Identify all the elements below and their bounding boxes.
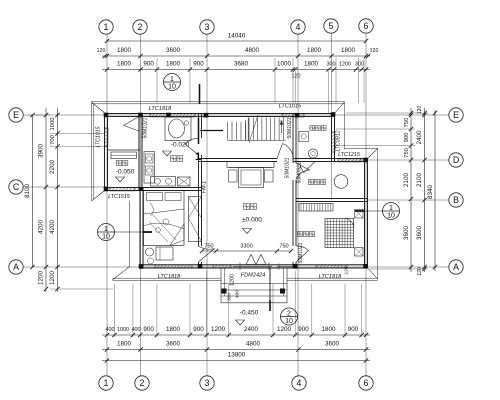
column grid4-A [293, 264, 298, 269]
svg-text:2: 2 [140, 378, 145, 388]
eave line bottom left part [113, 277, 222, 279]
dimension bottom row openings [102, 334, 370, 336]
wall hall right vertical [292, 114, 294, 164]
svg-text:3600: 3600 [166, 341, 181, 348]
svg-text:400: 400 [235, 290, 241, 298]
kitchen sink unit [165, 117, 191, 141]
svg-text:FDM2424: FDM2424 [241, 273, 266, 279]
wall exterior right [364, 159, 366, 269]
svg-text:B: B [453, 195, 459, 205]
column grid6-D [363, 158, 368, 163]
svg-text:50M1021: 50M1021 [287, 117, 293, 138]
door elder room from hall [296, 246, 309, 262]
detail bubble 1/10 top [164, 74, 181, 91]
bathroom toilet [299, 132, 309, 142]
detail bubble 2/10 at steps [281, 308, 298, 325]
grid line 3 vertical [206, 34, 208, 376]
bathroom sink circle [308, 149, 317, 158]
svg-text:LTC1515: LTC1515 [108, 194, 131, 200]
eave line bottom right part [287, 277, 378, 279]
svg-text:6: 6 [364, 378, 369, 388]
svg-text:900: 900 [143, 61, 154, 68]
window LTC1015 stairhall top [282, 114, 304, 117]
svg-text:2: 2 [138, 22, 143, 32]
terrace edge line left lower [129, 201, 131, 267]
window hall bottom left [213, 265, 231, 268]
column grid5-E [331, 112, 336, 117]
svg-text:750: 750 [404, 118, 410, 128]
svg-text:3: 3 [205, 22, 210, 32]
dimension bottom row axis [102, 349, 370, 351]
svg-text:300: 300 [327, 62, 336, 68]
wall exterior bottom [140, 264, 368, 266]
stair treads left flight [227, 122, 229, 141]
grid line 6 vertical [365, 34, 367, 376]
column step right [280, 289, 285, 294]
hall stool right [265, 170, 274, 182]
window LTC0912 bathroom right wall [332, 132, 335, 152]
column step left [222, 289, 227, 294]
wall washroom-dining divider [108, 149, 141, 151]
kitchen stove [151, 177, 176, 187]
svg-text:1800: 1800 [307, 47, 322, 54]
svg-text:4: 4 [296, 22, 301, 32]
detail bubble 1/10 left with leader [98, 224, 115, 241]
grid bubble 4 bottom [292, 376, 306, 390]
eave hip top-right [334, 103, 345, 115]
svg-text:LTC1015: LTC1015 [96, 126, 102, 147]
svg-text:D: D [453, 155, 459, 165]
dimension left axis row [45, 108, 47, 292]
svg-text:3600: 3600 [403, 226, 410, 241]
svg-text:400: 400 [106, 327, 115, 333]
stair rail center [245, 120, 247, 141]
eave line step right [345, 148, 379, 150]
svg-text:4: 4 [297, 378, 302, 388]
svg-text:E: E [453, 110, 459, 120]
svg-text:750: 750 [279, 244, 288, 250]
svg-text:4800: 4800 [246, 341, 261, 348]
dining level triangle [116, 177, 125, 182]
eave hip bottom-left [113, 267, 130, 281]
svg-text:3900: 3900 [38, 144, 45, 159]
grid line 5 vertical [331, 33, 333, 200]
elder room bed plaid [325, 219, 354, 248]
dimension bottom overall 13800 [102, 360, 370, 362]
svg-text:-0.050: -0.050 [116, 169, 135, 176]
svg-text:1000: 1000 [50, 118, 56, 131]
dimension right openings row [410, 108, 412, 272]
svg-text:1800: 1800 [166, 61, 181, 68]
svg-text:10: 10 [102, 234, 110, 241]
svg-text:6: 6 [364, 21, 369, 31]
wall stairhall bottom / hall top [199, 158, 278, 160]
grid line C horizontal [24, 186, 108, 188]
svg-text:750: 750 [204, 244, 213, 250]
svg-text:900: 900 [193, 61, 204, 68]
steps level triangle [236, 320, 245, 325]
window LTC1215 firewood room top [338, 159, 361, 162]
hall label 堂屋 [244, 204, 250, 210]
left dimension extension lines [50, 133, 104, 135]
svg-text:1: 1 [104, 226, 108, 233]
grid bubble A right [449, 260, 463, 274]
svg-text:1800: 1800 [117, 61, 132, 68]
svg-text:2400: 2400 [244, 326, 259, 333]
svg-text:1200: 1200 [211, 326, 226, 333]
svg-text:50M1021: 50M1021 [298, 242, 304, 263]
kitchen level triangle [163, 151, 172, 156]
kitchen label [170, 156, 176, 162]
svg-text:LTC0912: LTC0912 [336, 130, 342, 151]
svg-text:LTC1818: LTC1818 [158, 274, 181, 280]
svg-text:4200: 4200 [38, 220, 45, 235]
svg-text:5: 5 [329, 21, 334, 31]
column grid2-E [138, 113, 143, 118]
elder room cabinet hatched [299, 204, 333, 212]
svg-text:1800: 1800 [304, 61, 319, 68]
svg-text:1800: 1800 [117, 47, 132, 54]
svg-text:-0.020: -0.020 [171, 142, 190, 149]
column grid1-E [104, 113, 109, 118]
elder room bedside table bottom with X [355, 248, 364, 257]
svg-text:700: 700 [50, 135, 56, 145]
svg-text:1: 1 [170, 76, 174, 83]
grid line B horizontal [368, 199, 449, 201]
section 1 flag in kitchen [198, 118, 200, 145]
dimension top overall 14040 [107, 40, 366, 42]
svg-text:-0.450: -0.450 [240, 310, 259, 317]
window LTC1818 elder room bottom [316, 265, 347, 268]
svg-text:1: 1 [104, 22, 109, 32]
eave hip left-mid [92, 190, 106, 201]
grid line 2 vertical [140, 34, 142, 376]
column grid3-A [198, 264, 203, 269]
eave hip right-mid [367, 149, 378, 160]
entry steps sides [220, 268, 222, 303]
svg-text:900: 900 [193, 326, 204, 333]
svg-text:LTC1818: LTC1818 [149, 106, 172, 112]
svg-text:900: 900 [143, 326, 154, 333]
svg-text:300: 300 [355, 62, 364, 68]
stair treads right flight [248, 118, 250, 141]
window hall bottom right 3-line [277, 265, 298, 267]
detail bubble 1/10 right with leader [383, 203, 400, 220]
svg-text:50M1021: 50M1021 [285, 157, 291, 178]
column kitchen top mid [166, 113, 171, 118]
bedroom dresser [156, 247, 173, 260]
svg-text:1000: 1000 [277, 61, 292, 68]
svg-text:FM-1: FM-1 [202, 181, 208, 193]
svg-text:120: 120 [417, 267, 423, 276]
column grid1-C [104, 187, 109, 192]
svg-text:50M1021: 50M1021 [143, 117, 149, 138]
dining label 餐台 [116, 160, 121, 165]
hall level triangle [243, 229, 252, 234]
svg-text:900: 900 [404, 133, 410, 143]
svg-text:8340: 8340 [427, 185, 434, 200]
section 1 cut mark upper [199, 84, 201, 104]
window LTC1818 bedroom bottom [155, 265, 192, 268]
svg-text:1800: 1800 [321, 326, 336, 333]
svg-text:10: 10 [387, 213, 395, 220]
firewood room label [308, 179, 313, 184]
grid bubble 6 top [359, 19, 373, 33]
svg-text:A: A [13, 262, 19, 272]
column bedroom top-left [139, 187, 143, 191]
svg-text:3300: 3300 [240, 244, 252, 250]
entry steps treads [221, 283, 287, 285]
stair bottom edge [228, 140, 286, 142]
door bedroom FM-1 [199, 246, 215, 262]
grid bubble 2 top [133, 20, 147, 34]
svg-text:4200: 4200 [49, 220, 56, 235]
svg-text:120: 120 [370, 48, 379, 54]
svg-text:8100: 8100 [24, 184, 31, 199]
dining counter 餐台 [111, 152, 137, 159]
section 2 cut line at steps [269, 268, 271, 311]
grid bubble B right [449, 193, 463, 207]
stair break diagonal [249, 115, 258, 143]
grid bubble 5 top [324, 19, 338, 33]
svg-text:1200: 1200 [38, 271, 45, 286]
eave line top [92, 101, 345, 103]
bedroom wardrobe [189, 197, 202, 242]
svg-text:10: 10 [285, 318, 293, 325]
svg-text:3: 3 [205, 378, 210, 388]
svg-text:1200: 1200 [277, 326, 292, 333]
grid bubble 1 top [99, 20, 113, 34]
eave line right upper wing [344, 102, 346, 150]
svg-text:LTC1015: LTC1015 [279, 104, 302, 110]
svg-text:2: 2 [287, 310, 291, 317]
svg-text:1: 1 [195, 151, 201, 163]
door bathroom from firewood room [300, 162, 315, 173]
dimension top row axis distances [102, 55, 370, 57]
window LTC1818 kitchen top [150, 114, 195, 117]
svg-text:2100: 2100 [403, 173, 410, 188]
grid line D horizontal [340, 159, 449, 161]
window LTC1515 dining bottom [110, 188, 135, 191]
grid bubble 2 bottom [135, 376, 149, 390]
grid line E horizontal [24, 114, 449, 116]
svg-text:300: 300 [227, 293, 233, 301]
elder room bed pillow quarter [345, 219, 354, 228]
dimension right overall 8340 [434, 110, 436, 271]
svg-text:3600: 3600 [416, 226, 423, 241]
bedroom bed duvet fold [144, 209, 185, 214]
svg-text:3600: 3600 [325, 341, 340, 348]
grid bubble E left [9, 108, 23, 122]
svg-text:1200: 1200 [49, 271, 56, 286]
hall interior dimension 750 3300 750 [202, 250, 291, 252]
wall kitchen-stairhall divider [198, 114, 200, 139]
svg-text:3680: 3680 [234, 61, 249, 68]
window LTC0615 washroom left wall [105, 128, 108, 147]
wall elder-room top [296, 198, 368, 200]
hall stool left [229, 170, 238, 182]
svg-text:2200: 2200 [49, 160, 56, 175]
grid bubble D right [449, 153, 463, 167]
wall bathroom right vertical [331, 114, 333, 162]
grid bubble 3 bottom [200, 376, 214, 390]
svg-text:120: 120 [97, 48, 106, 54]
bottom dimension extension lines [113, 284, 115, 337]
hall long altar table [227, 162, 274, 168]
wall exterior left [104, 114, 106, 191]
wall washroom right vertical [138, 114, 140, 191]
grid bubble 3 top [200, 20, 214, 34]
svg-text:1200: 1200 [339, 62, 351, 68]
svg-text:750: 750 [404, 148, 410, 158]
right dimension extension lines [336, 128, 415, 130]
grid bubble A left [9, 260, 23, 274]
svg-text:50M0921: 50M0921 [297, 162, 303, 183]
svg-text:1200: 1200 [230, 274, 236, 286]
wall exterior top [105, 113, 335, 115]
bedroom bed [144, 191, 185, 246]
hall square table [239, 168, 264, 188]
svg-text:14040: 14040 [228, 33, 246, 40]
door firewood room from hall [296, 163, 310, 179]
grid bubble 4 top [291, 20, 305, 34]
svg-text:A: A [453, 262, 459, 272]
grid bubble 6 bottom [359, 376, 373, 390]
grid line 4 vertical [297, 34, 299, 376]
door kitchen from stairhall [185, 138, 199, 155]
svg-text:1800: 1800 [341, 47, 356, 54]
svg-text:1800: 1800 [117, 341, 132, 348]
bedroom stool circles [146, 248, 154, 256]
svg-text:900: 900 [348, 326, 359, 333]
dimension right axis row [424, 108, 426, 272]
svg-text:13800: 13800 [228, 352, 246, 359]
grid bubble C left [9, 180, 23, 194]
grid line 1 vertical [106, 34, 108, 376]
svg-text:LTC1818: LTC1818 [319, 274, 342, 280]
svg-text:C: C [13, 182, 20, 192]
entry door threshold [233, 265, 272, 267]
column grid3-E [204, 113, 209, 118]
eave hip top-left [92, 103, 107, 115]
bedroom bed pillows [147, 193, 163, 201]
kitchen counter left [144, 152, 155, 184]
svg-text:10: 10 [168, 84, 176, 91]
column grid6-A [363, 264, 368, 269]
svg-text:LTC1215: LTC1215 [338, 152, 361, 158]
svg-text:±0.000: ±0.000 [242, 217, 262, 224]
svg-text:1800: 1800 [166, 326, 181, 333]
eave line left [91, 102, 93, 202]
column grid4-E [295, 113, 300, 118]
svg-text:1: 1 [104, 378, 109, 388]
wall dining bottom with bedroom top [105, 187, 202, 189]
svg-text:E: E [13, 110, 19, 120]
svg-text:1: 1 [389, 205, 393, 212]
wall bedroom left [139, 188, 141, 269]
column grid2-A [139, 264, 144, 269]
svg-text:2400: 2400 [416, 130, 423, 145]
entry double door FDM2424 leaf left [246, 255, 256, 265]
grid bubble 1 bottom [99, 376, 113, 390]
svg-text:3600: 3600 [166, 47, 181, 54]
svg-text:1000: 1000 [117, 327, 129, 333]
firewood room stove circle [334, 175, 348, 189]
entry double door FDM2424 leaf right [256, 255, 266, 265]
door stairhall to hall [277, 144, 293, 159]
eave hip bottom-right [367, 267, 378, 280]
stair up arrow [281, 121, 283, 133]
elder room bedside table top with X [355, 210, 364, 219]
grid line A horizontal [24, 266, 449, 268]
dimension top row openings [102, 69, 370, 71]
elder room label [297, 231, 302, 236]
kitchen cabinet with X [178, 177, 191, 186]
eave line right [377, 149, 379, 280]
grid bubble E right [449, 108, 463, 122]
door washroom 50M1021 [124, 117, 140, 132]
svg-text:4800: 4800 [245, 47, 260, 54]
dimension left openings row [57, 108, 59, 292]
top dimension extension lines [156, 58, 158, 103]
bathroom label [310, 126, 315, 131]
svg-text:2100: 2100 [416, 173, 423, 188]
svg-text:900: 900 [298, 326, 309, 333]
dimension left overall 8100 [32, 115, 34, 267]
